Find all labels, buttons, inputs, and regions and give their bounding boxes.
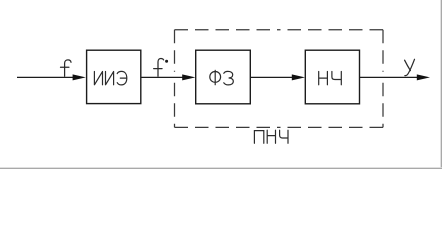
label НЧ	[319, 72, 342, 85]
arrowhead output	[417, 74, 430, 80]
dashed boundary box ПНЧ : top edge right half	[279, 29, 383, 31]
dashed boundary box ПНЧ : right edge upper	[382, 30, 384, 72]
dashed boundary box ПНЧ : bottom edge left half	[175, 126, 280, 128]
arrowhead into block ИИЭ	[73, 74, 86, 80]
wire: input signal line	[17, 76, 74, 78]
dashed boundary box ПНЧ : left edge upper	[174, 30, 176, 72]
block ФЗ	[196, 50, 251, 104]
label ФЗ	[210, 70, 234, 85]
page border: right edge	[439, 0, 442, 169]
label ИИЭ	[94, 71, 126, 85]
arrowhead into block НЧ	[292, 74, 305, 80]
node label f (input)	[61, 60, 72, 76]
page border: bottom edge	[0, 166, 442, 169]
dashed boundary box ПНЧ : right edge lower	[382, 83, 384, 128]
dashed boundary box ПНЧ : top edge left half	[175, 29, 280, 31]
derivative dot on f*	[165, 60, 168, 63]
node label y (output)	[405, 59, 415, 75]
block НЧ	[305, 50, 359, 104]
wire: output y	[360, 76, 419, 78]
arrowhead into block ФЗ	[182, 74, 195, 80]
wire: f* from ИИЭ to ФЗ	[141, 76, 184, 78]
block ИИЭ	[87, 50, 141, 103]
dashed boundary box ПНЧ : bottom edge right half	[279, 126, 383, 128]
wire: ФЗ to НЧ	[250, 76, 294, 78]
node label f*	[154, 59, 164, 77]
boundary label ПНЧ	[254, 130, 288, 143]
dashed boundary box ПНЧ : left edge lower	[174, 83, 176, 128]
